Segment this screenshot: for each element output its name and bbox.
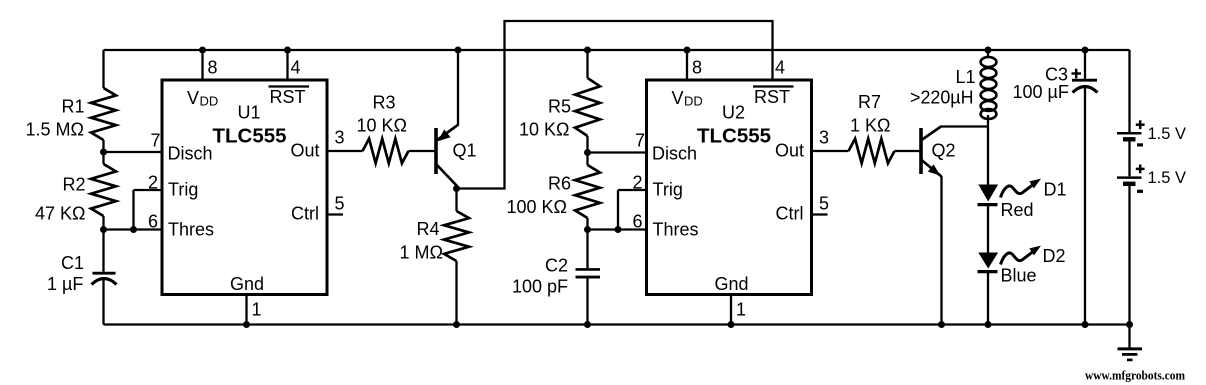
svg-text:R7: R7 bbox=[858, 92, 881, 112]
op-amp U2 TLC555 body bbox=[647, 80, 812, 295]
transistor Q1 bbox=[436, 50, 458, 190]
wire U1 pin6 stub bbox=[104, 228, 164, 230]
node junction at 618,229.5 bbox=[615, 226, 622, 233]
label BT2 minus bbox=[1137, 190, 1143, 193]
wire U1 pin8 stub bbox=[201, 50, 203, 80]
svg-text:R2: R2 bbox=[63, 175, 86, 195]
op-amp U1 TLC555 body bbox=[162, 80, 327, 295]
node junction at 988,324.5 bbox=[985, 321, 992, 328]
wire R6 branch bbox=[586, 153, 588, 230]
svg-text:7: 7 bbox=[151, 131, 161, 151]
node junction at 456.5,324.5 bbox=[453, 321, 460, 328]
resistor R7 bbox=[849, 139, 895, 164]
svg-text:R4: R4 bbox=[417, 219, 440, 239]
capacitor C2 bbox=[576, 269, 601, 277]
svg-text:TLC555: TLC555 bbox=[213, 125, 287, 148]
wire U1 pin7 stub bbox=[104, 151, 164, 153]
svg-text:D1: D1 bbox=[1044, 180, 1067, 200]
wire U1 pin4 stub bbox=[286, 50, 288, 80]
label BT1 plus bbox=[1136, 120, 1145, 129]
svg-text:1 MΩ: 1 MΩ bbox=[400, 243, 443, 263]
ground symbol bbox=[1118, 325, 1143, 360]
svg-text:R1: R1 bbox=[62, 97, 85, 117]
label C3 plus bbox=[1072, 69, 1082, 79]
svg-text:1.5 MΩ: 1.5 MΩ bbox=[26, 120, 84, 140]
node junction at 1129.5,324.5 bbox=[1126, 321, 1133, 328]
wire Q2 collector to L1 bbox=[941, 125, 989, 127]
svg-text:C2: C2 bbox=[545, 256, 568, 276]
resistor R4 bbox=[444, 211, 469, 261]
svg-text:1 µF: 1 µF bbox=[47, 274, 83, 294]
capacitor C3 bbox=[1072, 80, 1098, 92]
svg-text:RST: RST bbox=[754, 87, 790, 107]
resistor R2 bbox=[91, 164, 116, 216]
svg-text:4: 4 bbox=[291, 58, 301, 78]
svg-text:DD: DD bbox=[200, 94, 219, 109]
node junction at 103.5,152 bbox=[100, 149, 107, 156]
node junction at 103.5,229.5 bbox=[100, 226, 107, 233]
diode D1 bbox=[978, 185, 999, 205]
wire U2 pin3 to R7 bbox=[812, 150, 849, 152]
node junction at 587.5,50 bbox=[584, 47, 591, 54]
svg-text:1 KΩ: 1 KΩ bbox=[850, 116, 890, 136]
svg-text:5: 5 bbox=[819, 194, 829, 214]
node junction at 202.5,50 bbox=[199, 47, 206, 54]
wire R4 branch bbox=[455, 189, 457, 325]
svg-text:2: 2 bbox=[148, 173, 158, 193]
wire ground bottom rail bbox=[104, 323, 1130, 325]
svg-text:47 KΩ: 47 KΩ bbox=[35, 204, 85, 224]
svg-text:D2: D2 bbox=[1043, 246, 1066, 266]
wire U2 pin6 stub bbox=[588, 228, 648, 230]
node junction at 287.5,50 bbox=[284, 47, 291, 54]
resistor R3 bbox=[363, 139, 409, 164]
svg-text:Q2: Q2 bbox=[932, 141, 956, 161]
svg-text:Ctrl: Ctrl bbox=[291, 204, 319, 224]
node junction at 458,50 bbox=[455, 47, 462, 54]
svg-text:8: 8 bbox=[208, 58, 218, 78]
svg-text:Gnd: Gnd bbox=[715, 274, 749, 294]
wire C2 branch bbox=[586, 230, 588, 325]
svg-text:10 KΩ: 10 KΩ bbox=[519, 120, 569, 140]
svg-text:1.5 V: 1.5 V bbox=[1148, 125, 1187, 143]
node junction at 587.5,324.5 bbox=[584, 321, 591, 328]
svg-text:10 KΩ: 10 KΩ bbox=[357, 116, 407, 136]
svg-text:1: 1 bbox=[252, 300, 262, 320]
wire L1 column bbox=[987, 50, 989, 185]
arrow D2 light bbox=[1001, 246, 1042, 265]
node junction at 1085,324.5 bbox=[1082, 321, 1089, 328]
wire U2 pin2 stub bbox=[618, 189, 648, 191]
battery BT2 1.5V bbox=[1117, 178, 1142, 184]
svg-text:R6: R6 bbox=[548, 174, 571, 194]
wire D1-D2 link bbox=[987, 205, 989, 254]
svg-text:Red: Red bbox=[1001, 200, 1034, 220]
node junction at 1085,50 bbox=[1082, 47, 1089, 54]
svg-text:1.5 V: 1.5 V bbox=[1148, 169, 1187, 187]
svg-text:Trig: Trig bbox=[653, 180, 683, 200]
node junction at 988,50 bbox=[985, 47, 992, 54]
node junction at 941.5,324.5 bbox=[938, 321, 945, 328]
wire D2 to rail bbox=[987, 272, 989, 325]
svg-text:100 KΩ: 100 KΩ bbox=[507, 197, 568, 217]
wire U2 pin8 stub bbox=[686, 50, 688, 80]
svg-text:3: 3 bbox=[819, 128, 829, 148]
inductor L1 bbox=[981, 57, 997, 119]
svg-text:2: 2 bbox=[633, 173, 643, 193]
svg-text:3: 3 bbox=[335, 128, 345, 148]
svg-text:Q1: Q1 bbox=[453, 141, 477, 161]
svg-text:U2: U2 bbox=[722, 103, 745, 123]
svg-text:6: 6 bbox=[148, 212, 158, 232]
svg-text:8: 8 bbox=[692, 58, 702, 78]
wire R3 to Q1 base bbox=[409, 150, 435, 152]
label BT2 plus bbox=[1136, 165, 1145, 174]
svg-text:Out: Out bbox=[291, 141, 320, 161]
svg-text:Disch: Disch bbox=[652, 144, 697, 164]
svg-text:Thres: Thres bbox=[168, 220, 214, 240]
svg-text:DD: DD bbox=[684, 94, 703, 109]
wire U1 pin1 gnd stub bbox=[245, 295, 247, 325]
node junction at 687,50 bbox=[684, 47, 691, 54]
svg-text:Trig: Trig bbox=[168, 180, 198, 200]
svg-text:R3: R3 bbox=[373, 93, 396, 113]
node junction at 133.5,229.5 bbox=[130, 226, 137, 233]
svg-text:100 µF: 100 µF bbox=[1013, 82, 1069, 102]
node junction at 456.5,188.5 bbox=[453, 185, 460, 192]
svg-text:1: 1 bbox=[736, 300, 746, 320]
resistor R5 bbox=[575, 78, 600, 136]
svg-text:L1: L1 bbox=[956, 67, 976, 87]
resistor R1 bbox=[91, 88, 116, 140]
node junction at 246.5,324.5 bbox=[243, 321, 250, 328]
wire R7 to Q2 base bbox=[895, 150, 920, 152]
node junction at 587.5,152.5 bbox=[584, 149, 591, 156]
svg-text:5: 5 bbox=[335, 194, 345, 214]
svg-text:100 pF: 100 pF bbox=[512, 277, 568, 297]
battery BT1 1.5V bbox=[1117, 133, 1142, 139]
svg-text:TLC555: TLC555 bbox=[697, 125, 771, 148]
label BT1 minus bbox=[1137, 143, 1143, 146]
wire U2 trig-thres jumper bbox=[617, 190, 619, 230]
wire U2 pin7 stub bbox=[588, 151, 648, 153]
wire R5 branch bbox=[586, 50, 588, 153]
diode D2 bbox=[978, 253, 999, 272]
node junction at 731,324.5 bbox=[728, 321, 735, 328]
svg-text:4: 4 bbox=[775, 58, 785, 78]
wire Q2 emitter down bbox=[940, 176, 942, 325]
wire C3 branch bbox=[1084, 50, 1086, 325]
svg-text:7: 7 bbox=[635, 131, 645, 151]
svg-text:6: 6 bbox=[633, 212, 643, 232]
capacitor C1 bbox=[92, 273, 117, 284]
svg-text:Out: Out bbox=[775, 141, 804, 161]
label U1 RST overline bbox=[269, 85, 310, 87]
wire battery column bbox=[1128, 50, 1130, 325]
wire top link from Q1 collector to U2 RST bbox=[457, 21, 773, 189]
svg-text:Blue: Blue bbox=[1001, 266, 1037, 286]
svg-text:Thres: Thres bbox=[653, 220, 699, 240]
svg-text:www.mfgrobots.com: www.mfgrobots.com bbox=[1085, 369, 1186, 383]
svg-text:Gnd: Gnd bbox=[230, 274, 264, 294]
node junction at 587.5,229.5 bbox=[584, 226, 591, 233]
arrow D1 light bbox=[1001, 179, 1042, 198]
resistor R6 bbox=[575, 165, 600, 218]
svg-text:Disch: Disch bbox=[168, 144, 213, 164]
wire U1 trig-thres jumper bbox=[132, 190, 134, 230]
svg-text:R5: R5 bbox=[548, 97, 571, 117]
wire U1 pin5 ctrl stub bbox=[327, 213, 343, 215]
svg-text:Ctrl: Ctrl bbox=[776, 204, 804, 224]
wire V+ top rail bbox=[104, 49, 1130, 51]
svg-text:V: V bbox=[187, 88, 199, 108]
label U2 RST overline bbox=[753, 85, 794, 87]
svg-text:C1: C1 bbox=[61, 253, 84, 273]
wire U2 pin5 ctrl stub bbox=[812, 213, 828, 215]
svg-text:V: V bbox=[672, 88, 684, 108]
wire U1 pin3 to R3 bbox=[327, 150, 363, 152]
wire U1 pin2 stub bbox=[134, 189, 164, 191]
wire left branch segments (R1/R2/C1 column) bbox=[102, 50, 104, 325]
wire U2 pin1 gnd stub bbox=[730, 295, 732, 325]
svg-text:>220µH: >220µH bbox=[910, 88, 974, 108]
transistor Q2 bbox=[921, 127, 942, 177]
svg-text:U1: U1 bbox=[238, 103, 261, 123]
svg-text:RST: RST bbox=[270, 87, 306, 107]
